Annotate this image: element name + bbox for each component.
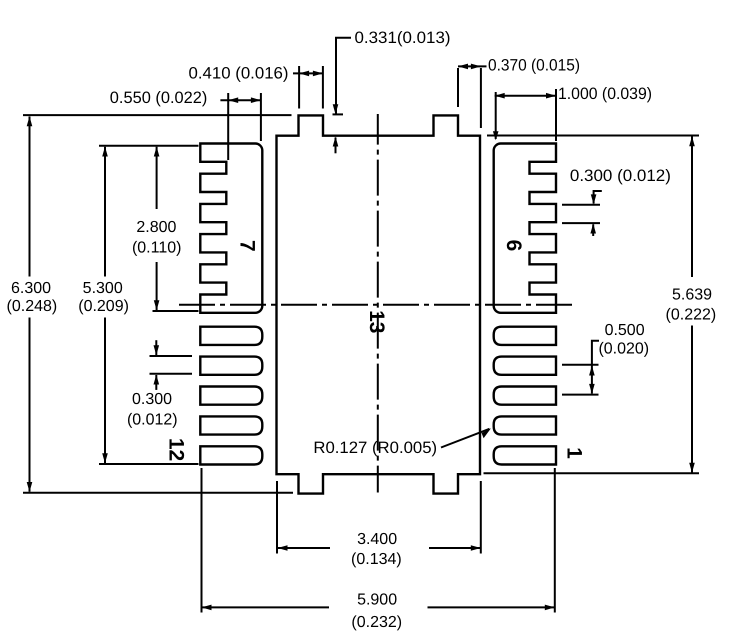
leader 0.300 right xyxy=(594,191,602,204)
right pad row 4 xyxy=(494,357,556,375)
svg-text:12: 12 xyxy=(165,438,188,461)
arrowhead 0.550 left xyxy=(228,97,238,103)
svg-text:0.370 (0.015): 0.370 (0.015) xyxy=(488,57,580,75)
arrowhead 1.000 left xyxy=(495,93,505,99)
extension line 0.300 right top xyxy=(562,204,600,206)
left pad row 9 xyxy=(200,357,262,375)
extension line 0.300 right bottom xyxy=(562,222,600,224)
svg-text:(0.012): (0.012) xyxy=(127,412,178,429)
dimension line 3.400 right segment xyxy=(429,547,481,549)
extension line 0.500 bottom xyxy=(562,394,599,396)
right pad row 3 xyxy=(494,387,556,405)
arrowhead 3.400 left xyxy=(278,545,288,551)
arrowhead 0.550 right xyxy=(251,97,261,103)
arrowhead R0.127 leader xyxy=(482,428,491,438)
arrowhead 0.500 down xyxy=(589,384,595,394)
extension line 2.800 bottom xyxy=(153,310,199,312)
extension line 0.410 right xyxy=(322,66,324,109)
svg-text:1: 1 xyxy=(563,447,586,459)
svg-text:(0.134): (0.134) xyxy=(351,551,402,568)
arrowhead 5.300 down xyxy=(102,453,108,463)
svg-text:0.550 (0.022): 0.550 (0.022) xyxy=(110,89,208,107)
extension line 0.550 left xyxy=(227,93,229,160)
leader 0.331 xyxy=(336,38,351,114)
extension line 3.400 left xyxy=(276,481,278,554)
extension line 5.900 left xyxy=(201,468,203,613)
arrowhead 5.900 right xyxy=(545,605,555,611)
extension line 5.300/2.800 top xyxy=(99,145,199,147)
extension line 3.400 right xyxy=(480,481,482,554)
right pad row 5 xyxy=(494,327,556,345)
svg-text:5.639: 5.639 xyxy=(672,287,712,304)
dimension line 5.900 left segment xyxy=(202,606,330,608)
svg-text:13: 13 xyxy=(365,310,388,333)
extension line 6.300 bottom xyxy=(23,492,293,494)
arrowhead 0.410 right xyxy=(313,71,323,77)
svg-text:1.000 (0.039): 1.000 (0.039) xyxy=(558,85,652,103)
dimension line 0.550 xyxy=(220,99,261,101)
arrowhead 0.500 up xyxy=(589,366,595,376)
svg-text:(0.222): (0.222) xyxy=(666,306,717,323)
extension line 0.410 left xyxy=(298,66,300,109)
extension line 0.300 left top xyxy=(150,355,193,357)
extension line 0.370 left xyxy=(457,68,459,107)
dimension line 6.300 lower xyxy=(29,318,31,492)
dimension line 2.800 lower xyxy=(156,262,158,310)
svg-text:0.300: 0.300 xyxy=(132,391,172,408)
svg-text:(0.232): (0.232) xyxy=(351,614,402,631)
svg-text:6.300: 6.300 xyxy=(11,280,51,297)
extension line 1.000 right xyxy=(555,89,557,141)
leader R0.127 xyxy=(441,429,490,448)
tail 0.300 right lower arrow xyxy=(592,224,594,236)
dimension line 3.400 left segment xyxy=(278,547,331,549)
dimension line 0.370 xyxy=(458,65,487,67)
arrowhead 0.331 down xyxy=(333,104,339,114)
svg-text:2.800: 2.800 xyxy=(136,219,176,236)
dimension line 5.639 lower xyxy=(691,326,693,473)
horizontal centerline xyxy=(179,304,577,306)
leader 0.500 xyxy=(592,341,599,394)
arrowhead 6.300 up xyxy=(27,116,33,126)
svg-text:0.500: 0.500 xyxy=(605,322,645,339)
arrowhead 5.639 up xyxy=(689,136,695,146)
extension line 5.639 bottom xyxy=(484,472,700,474)
dimension line 5.639 upper xyxy=(691,137,693,278)
svg-text:0.410 (0.016): 0.410 (0.016) xyxy=(189,65,289,83)
arrowhead 1.000 right xyxy=(546,93,556,99)
extension line 5.639 top xyxy=(487,135,699,137)
svg-text:5.900: 5.900 xyxy=(357,592,397,609)
svg-text:6: 6 xyxy=(502,240,525,252)
left pad row 11 xyxy=(200,416,262,434)
svg-text:(0.209): (0.209) xyxy=(78,298,129,315)
arrowhead 3.400 right xyxy=(471,545,481,551)
arrowhead 5.900 left xyxy=(202,605,212,611)
package body outline with index tabs xyxy=(277,115,481,493)
dimension line 5.300 upper xyxy=(104,147,106,277)
arrowhead 2.800 down xyxy=(154,300,160,310)
dimension line 6.300 upper xyxy=(29,117,31,277)
extension line 0.300 left bottom xyxy=(150,373,193,375)
arrowhead 1.000 ext down xyxy=(493,131,499,140)
arrowhead 6.300 down xyxy=(27,482,33,492)
left pad row 12 xyxy=(200,446,262,464)
right pad row 2 xyxy=(494,416,556,434)
right pad row 1 xyxy=(494,446,556,464)
extension line 0.500 top xyxy=(562,364,599,366)
pad group 7 comb (left) xyxy=(200,144,262,313)
extension line 5.300 bottom xyxy=(99,463,199,465)
extension line 6.300 top xyxy=(23,114,292,116)
dimension line 1.000 xyxy=(495,95,557,97)
arrowhead 0.370 right xyxy=(471,64,481,70)
dimension line 5.900 right segment xyxy=(428,606,555,608)
svg-text:3.400: 3.400 xyxy=(357,531,397,548)
svg-text:(0.110): (0.110) xyxy=(132,240,182,257)
extension line 0.550 right xyxy=(260,93,262,141)
svg-text:0.300 (0.012): 0.300 (0.012) xyxy=(570,167,671,185)
svg-text:0.331(0.013): 0.331(0.013) xyxy=(355,29,451,47)
svg-text:(0.248): (0.248) xyxy=(7,298,58,315)
extension tick 0.331 xyxy=(333,113,344,115)
extension line 0.370 right xyxy=(480,68,482,128)
arrowhead 0.410 left xyxy=(299,71,309,77)
arrowhead 0.300 left lower xyxy=(154,375,160,385)
arrowhead 0.331 up xyxy=(333,137,339,147)
dimension tails 0.300 left xyxy=(155,340,157,355)
extension line 5.900 right xyxy=(554,468,556,613)
arrowhead 5.639 down xyxy=(689,463,695,473)
pad group 6 comb (right) xyxy=(494,144,556,313)
arrowhead 5.300 up xyxy=(102,147,108,157)
tail 0.331 lower arrow xyxy=(335,138,337,154)
svg-text:R0.127 (R0.005): R0.127 (R0.005) xyxy=(313,439,437,457)
dimension line 0.410 xyxy=(293,72,323,74)
left pad row 10 xyxy=(200,387,262,405)
arrowhead 0.300 right upper xyxy=(591,194,597,204)
left pad row 8 xyxy=(200,327,262,345)
svg-text:5.300: 5.300 xyxy=(83,280,123,297)
arrowhead 0.300 right lower xyxy=(590,224,596,234)
arrowhead 2.800 up xyxy=(154,147,160,157)
dimension line 2.800 upper xyxy=(156,147,158,209)
arrowhead 0.300 left upper xyxy=(154,345,160,355)
svg-text:(0.020): (0.020) xyxy=(598,340,649,357)
vertical centerline xyxy=(377,114,379,493)
arrowhead 0.370 left xyxy=(458,64,468,70)
dimension line 5.300 lower xyxy=(104,318,106,464)
extension arrow line 1.000 left xyxy=(495,92,497,139)
svg-text:7: 7 xyxy=(235,240,258,252)
